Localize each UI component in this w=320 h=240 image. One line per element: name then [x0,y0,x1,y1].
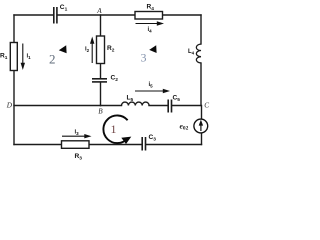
svg-text:B: B [98,107,103,115]
svg-text:i5: i5 [149,82,154,88]
capacitor C3 [142,137,145,151]
wire stub: R2 to C2 [100,64,102,79]
wire left vertical upper [13,15,15,43]
current arrow i3 [62,134,92,138]
wire top-left: corner to C1 [14,14,53,16]
svg-text:3: 3 [141,51,147,65]
wire stub: C2 to node B [100,82,102,105]
mesh arrow 1 (circular) [103,115,131,144]
wire stub: node A to R2 [100,15,102,36]
resistor R4 [135,12,163,20]
wire right vertical: source to bottom corner [201,133,203,145]
wire right vertical top: corner to L4 [200,15,202,44]
resistor R3 [62,141,90,149]
wire right vertical: node C to source [201,106,203,120]
svg-text:i4: i4 [148,27,153,33]
capacitor C2 [92,79,107,82]
svg-text:A: A [96,7,102,15]
wire top-mid: C1 to R4 [58,14,136,16]
svg-text:i1: i1 [27,54,32,60]
wire bottom-mid: R3 to C3 [89,144,141,146]
wire middle: D to B [14,105,101,107]
svg-text:L4: L4 [188,49,195,55]
wire bottom-left: corner to R3 [14,144,62,146]
wire right vertical mid: L4 to node C [200,63,202,106]
current arrow i4 [136,21,165,25]
svg-text:i3: i3 [75,130,80,136]
inductor L4 [196,44,201,63]
wire left vertical lower [13,71,15,145]
wire middle: L5 to C5 [149,105,168,107]
resistor R1 [10,43,17,71]
wire middle: C5 to node C [172,105,201,107]
svg-text:1: 1 [111,122,117,136]
source e02 [194,119,208,133]
wire middle: B to L5 [101,105,122,107]
current arrow i2 [90,37,94,64]
svg-text:2: 2 [49,52,56,67]
svg-text:C: C [204,101,209,109]
wire top-right: R4 to corner [163,14,202,16]
inductor L5 [122,102,150,105]
mesh arrow 3 [149,45,156,53]
current arrow i1 [21,44,25,71]
svg-text:D: D [6,101,13,109]
capacitor C1 [54,7,57,24]
resistor R2 [97,36,105,64]
capacitor C5 [168,100,171,113]
svg-text:i2: i2 [85,47,90,53]
wire bottom-right: C3 to corner [147,144,202,146]
current arrow i5 [135,89,170,93]
mesh arrow 2 [59,45,67,53]
